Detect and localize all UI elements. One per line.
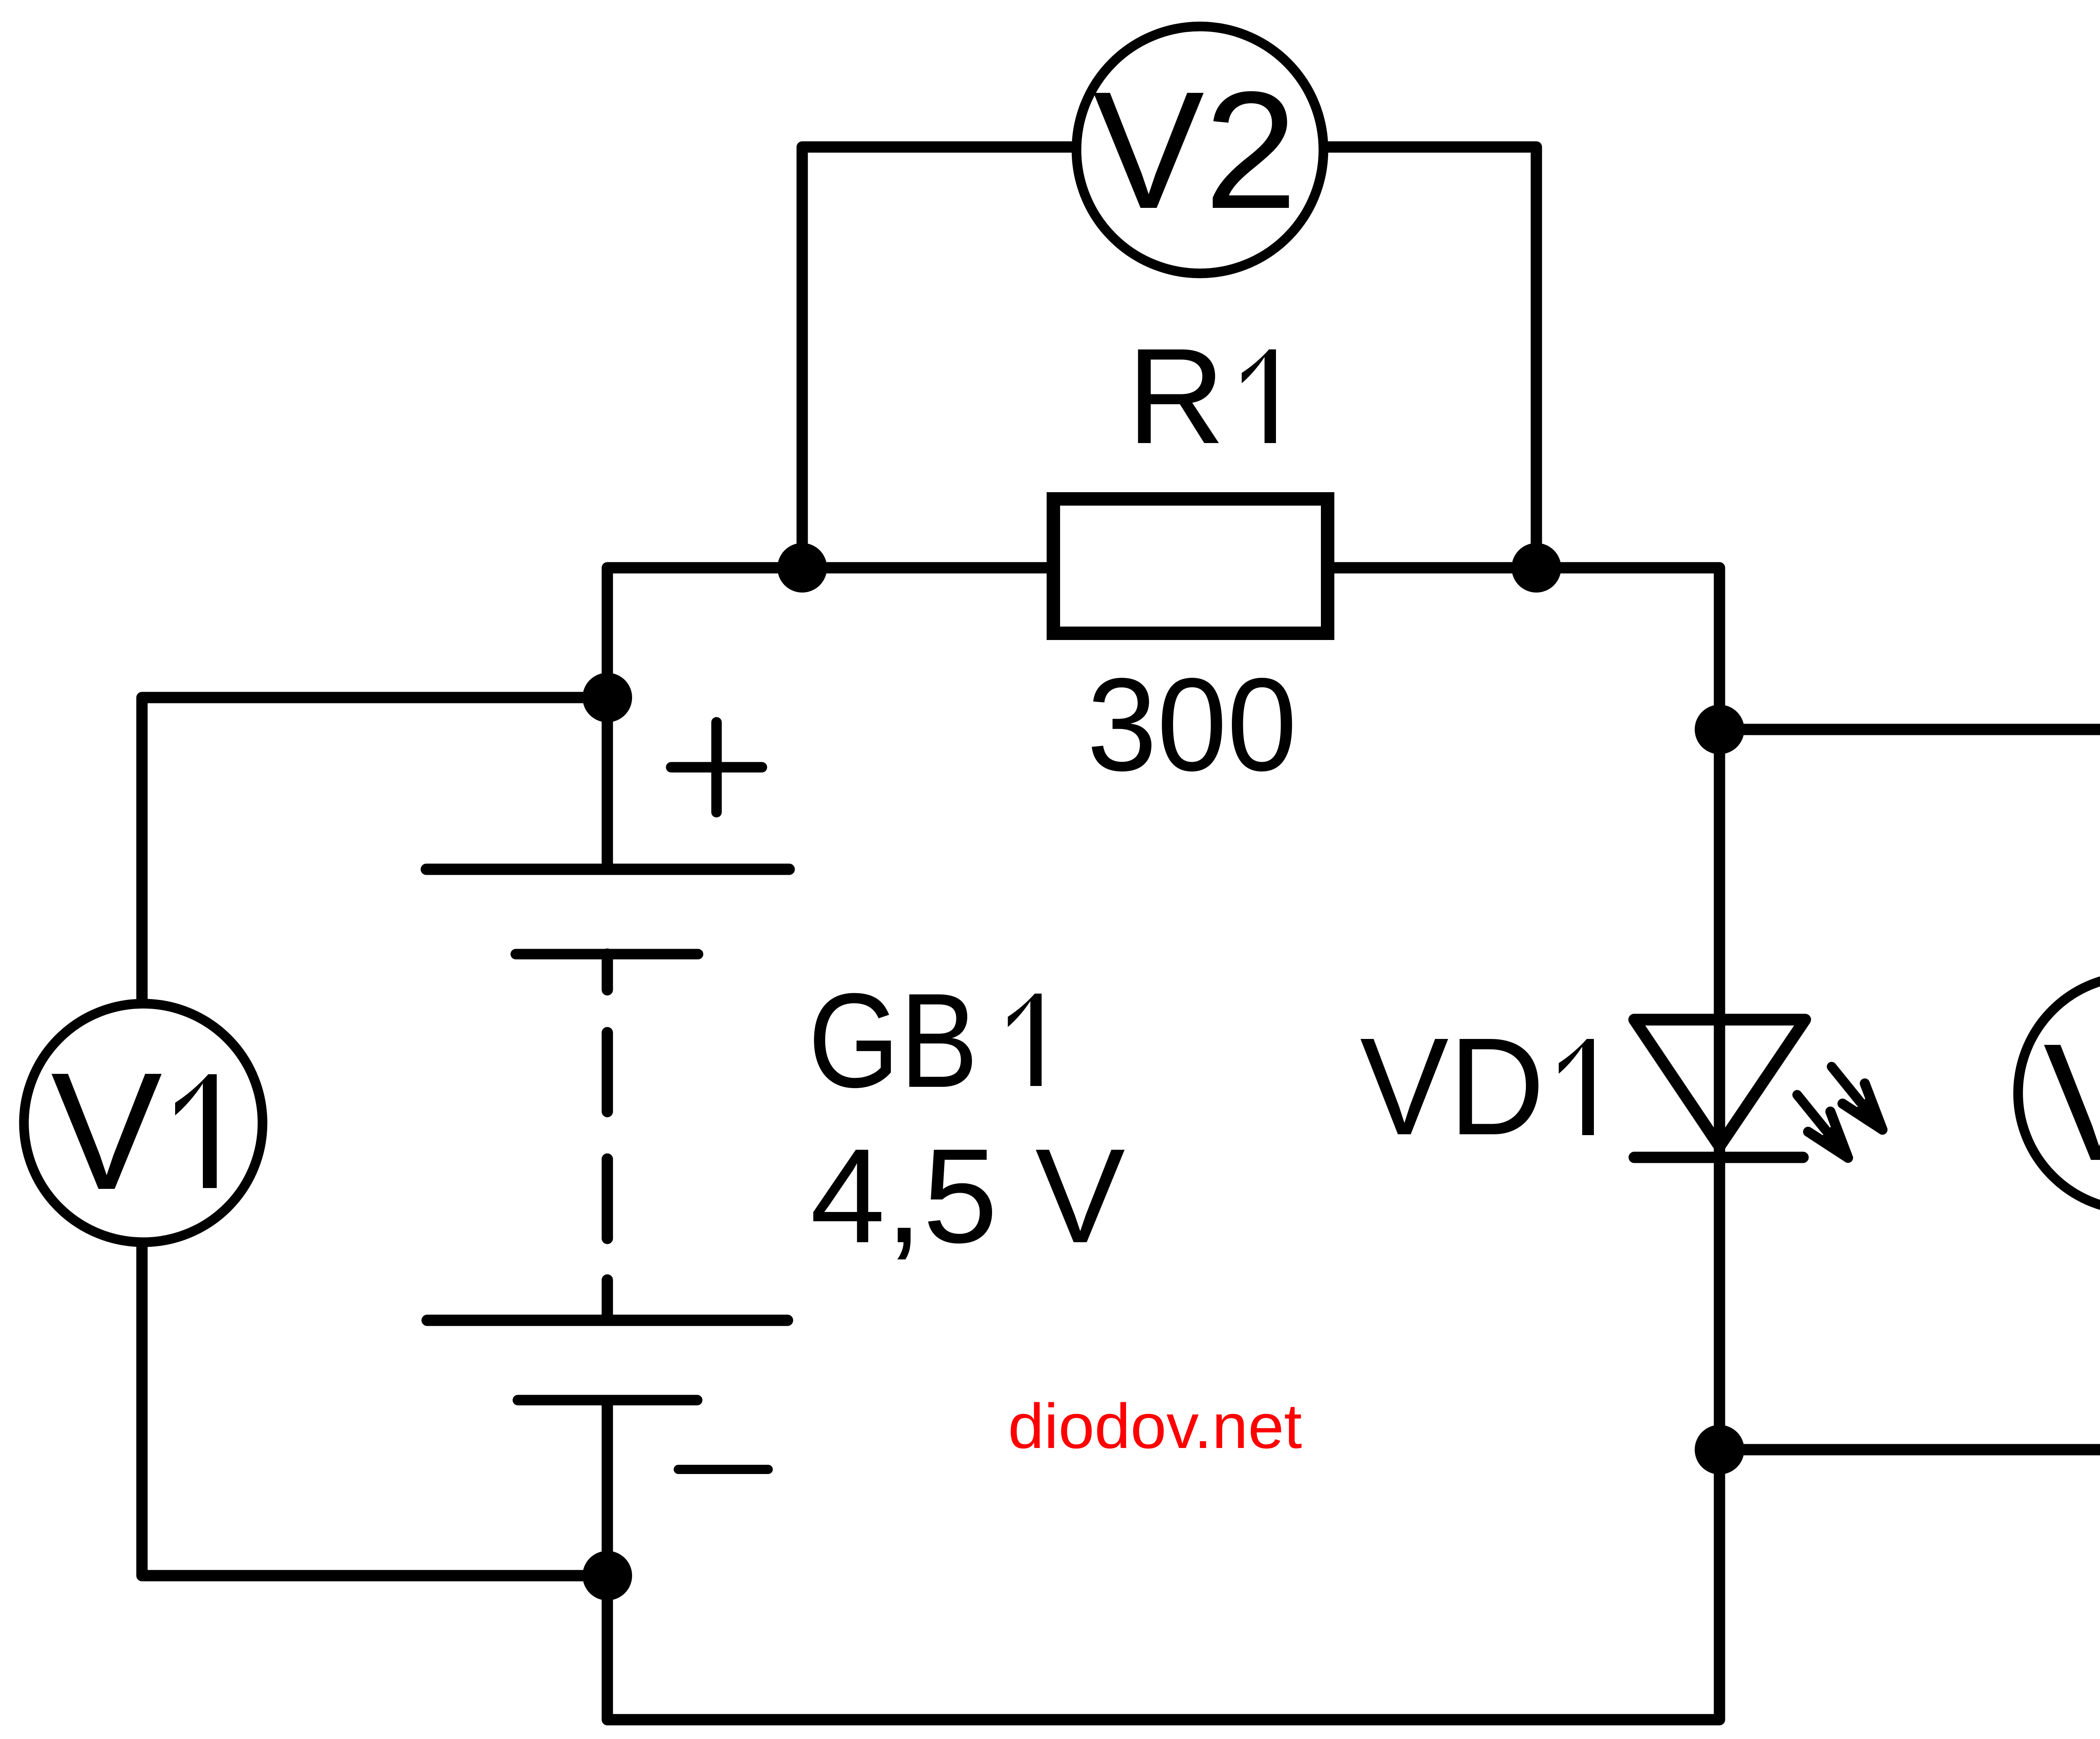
junction node main-right: [1512, 543, 1561, 593]
wire V2 loop left vertical + top left horizontal: [802, 147, 1072, 568]
svg-text:V2: V2: [1093, 57, 1297, 244]
wire V2 loop top right horizontal + right vertical: [1327, 147, 1536, 568]
svg-text:R: R: [1127, 320, 1225, 472]
voltmeter V1 circle: [24, 1004, 262, 1242]
svg-text:V: V: [51, 1038, 163, 1225]
LED VD1 arrow lower: [1797, 1095, 1848, 1158]
battery GB1 plate short bottom: [518, 1395, 697, 1406]
junction node led-bottom: [1695, 1425, 1744, 1474]
wire V1 loop top horizontal + left vertical upper: [142, 698, 607, 999]
wire V1 loop left vertical lower + bottom horizontal: [142, 1246, 607, 1576]
resistor R1 body: [1053, 499, 1328, 633]
wire V3 loop top horizontal + right vertical upper: [1719, 729, 2100, 972]
junction node battery-bottom: [583, 1551, 632, 1600]
svg-text:diodov.net: diodov.net: [1008, 1390, 1302, 1461]
battery GB1 plate long bottom: [427, 1315, 787, 1326]
wire main horizontal left + battery top lead: [607, 568, 1047, 869]
LED VD1 triangle: [1634, 1020, 1805, 1146]
LED VD1 arrow upper: [1832, 1067, 1882, 1130]
wire main horizontal right + right vertical + bottom + battery bottom lead: [607, 568, 1719, 1720]
svg-text:300: 300: [1087, 650, 1297, 798]
junction node battery-top: [583, 673, 632, 722]
battery minus sign: [678, 1465, 768, 1474]
battery GB1 dash 3: [602, 1159, 613, 1238]
svg-text:VD: VD: [1360, 1009, 1545, 1164]
svg-text:V3: V3: [2043, 1009, 2100, 1196]
battery GB1 plate short top: [516, 949, 698, 960]
battery GB1 dashed middle stub 1: [602, 954, 613, 990]
voltmeter V3 circle: [2018, 976, 2100, 1210]
junction node led-top: [1695, 705, 1744, 754]
battery plus sign: [671, 722, 762, 812]
battery GB1 stub 4: [602, 1280, 613, 1320]
svg-text:GB: GB: [808, 965, 978, 1115]
battery GB1 plate long top: [426, 864, 789, 875]
junction node main-left: [777, 543, 827, 593]
LED VD1 cathode bar: [1634, 1152, 1803, 1163]
battery GB1 dash 2: [602, 1033, 613, 1112]
svg-text:4,5 V: 4,5 V: [810, 1120, 1126, 1271]
voltmeter V2 circle: [1076, 26, 1323, 273]
wire V3 loop right vertical lower + bottom horizontal: [1719, 1214, 2100, 1450]
